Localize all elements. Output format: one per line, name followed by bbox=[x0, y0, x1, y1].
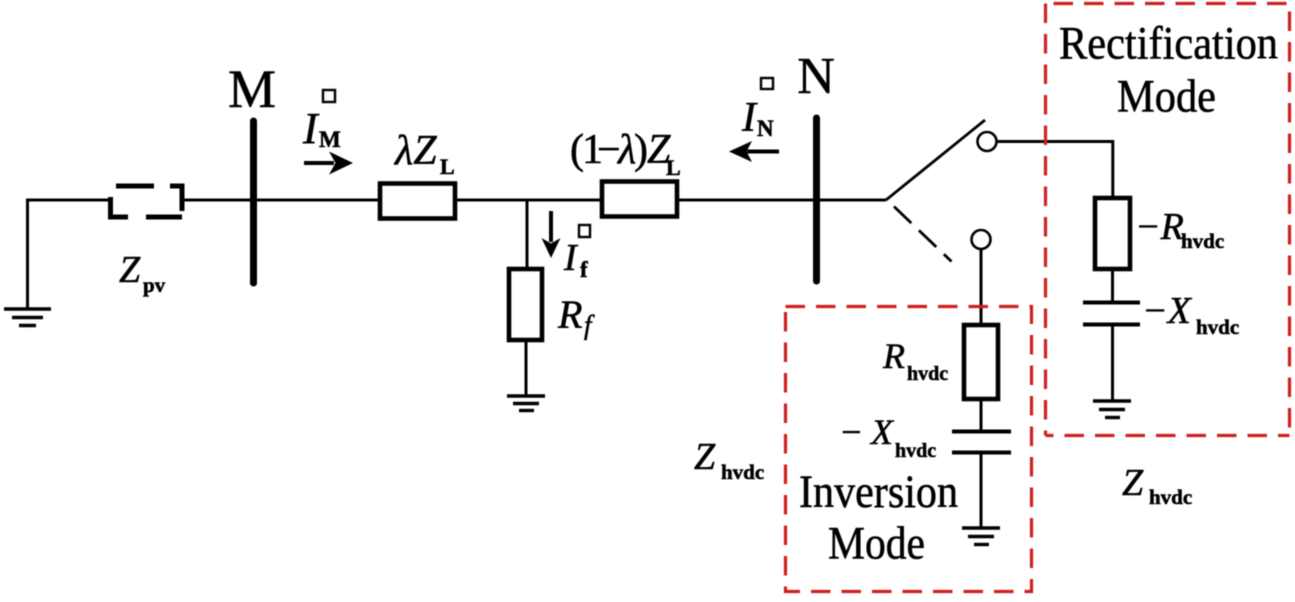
label lambda-Z_L bbox=[393, 128, 455, 179]
svg-text:Z: Z bbox=[1122, 462, 1144, 504]
resistor (1-lambda)Z_L bbox=[602, 182, 677, 217]
arrow I_N bbox=[729, 141, 779, 162]
impedance Z_pv dashed box bbox=[111, 186, 183, 217]
svg-text:Z: Z bbox=[694, 436, 716, 478]
label I_M bbox=[302, 104, 341, 153]
svg-text:λZ: λZ bbox=[393, 128, 437, 174]
svg-text:Mode: Mode bbox=[828, 518, 925, 570]
svg-text:I: I bbox=[741, 95, 758, 141]
ground (far left) bbox=[4, 309, 51, 326]
wire (lower contact down to R_hvdc) bbox=[980, 249, 983, 326]
label Z_hvdc (left of inversion box) bbox=[694, 436, 764, 484]
svg-text:Z: Z bbox=[119, 249, 141, 291]
svg-text:M: M bbox=[228, 59, 276, 119]
phasor dot square (I_f) bbox=[579, 225, 590, 237]
wire (capacitor to ground, inversion) bbox=[980, 452, 983, 528]
svg-text:−R: −R bbox=[1135, 206, 1184, 248]
switch blade (dashed, inversion position) bbox=[894, 207, 952, 262]
svg-text:N: N bbox=[797, 48, 835, 105]
bus N bbox=[813, 118, 820, 281]
wire (junction down to R_f) bbox=[526, 199, 529, 269]
label Z_hvdc (below rectification box) bbox=[1122, 462, 1192, 509]
svg-text:hvdc: hvdc bbox=[907, 363, 948, 385]
wire (upper contact to rectification branch) bbox=[997, 140, 1114, 143]
label -R_hvdc bbox=[1135, 206, 1224, 253]
switch blade (solid, rectification position) bbox=[886, 120, 985, 200]
svg-text:I: I bbox=[302, 104, 320, 153]
svg-text:M: M bbox=[319, 127, 341, 152]
capacitor -X_hvdc (inversion) bbox=[952, 432, 1011, 453]
resistor lambda-Z_L bbox=[380, 184, 455, 219]
resistor R_hvdc (inversion) bbox=[964, 325, 998, 399]
inversion mode box (red dashed) bbox=[786, 307, 1032, 592]
wire (R_hvdc to capacitor, inversion) bbox=[980, 399, 983, 431]
label -X_hvdc (rectification) bbox=[1142, 290, 1239, 339]
svg-text:−X: −X bbox=[1142, 290, 1193, 332]
wire ((1-lambda)Z_L to switch pivot, through bus N) bbox=[677, 199, 886, 202]
bus M bbox=[250, 121, 257, 283]
capacitor -X_hvdc (rectification) bbox=[1083, 303, 1140, 325]
wire (left vertical to ground) bbox=[26, 200, 29, 309]
wire (down to -R_hvdc) bbox=[1111, 140, 1114, 198]
arrow I_M bbox=[304, 152, 353, 175]
phasor dot square (I_N) bbox=[761, 78, 773, 89]
svg-text:R: R bbox=[882, 336, 905, 376]
svg-text:R: R bbox=[557, 292, 582, 337]
svg-text:hvdc: hvdc bbox=[895, 440, 936, 462]
label I_N bbox=[741, 95, 774, 141]
svg-text:hvdc: hvdc bbox=[1196, 315, 1239, 339]
svg-text:(1−λ)Z: (1−λ)Z bbox=[570, 127, 671, 173]
svg-text:f: f bbox=[580, 257, 588, 282]
svg-text:hvdc: hvdc bbox=[1149, 485, 1192, 509]
svg-text:L: L bbox=[440, 154, 455, 179]
phasor dot square (I_M) bbox=[323, 90, 335, 102]
svg-text:−: − bbox=[839, 412, 863, 452]
wire (left horizontal to Z_pv) bbox=[26, 199, 110, 202]
label I_f bbox=[563, 237, 588, 282]
wire (-R_hvdc to -X_hvdc capacitor) bbox=[1111, 269, 1114, 302]
arrow I_f bbox=[542, 211, 561, 258]
wire (lambda-Z_L to (1-lambda)Z_L) bbox=[455, 199, 602, 202]
svg-text:pv: pv bbox=[143, 273, 166, 297]
rectification mode box (red dashed) bbox=[1046, 4, 1290, 436]
wire (capacitor to ground, rectification) bbox=[1111, 324, 1114, 401]
label Z_pv bbox=[119, 249, 166, 297]
label (1-lambda)Z_L bbox=[570, 127, 681, 180]
ground (below R_f) bbox=[507, 396, 545, 411]
svg-text:Inversion: Inversion bbox=[799, 466, 958, 518]
label R_hvdc (inversion) bbox=[882, 336, 948, 385]
label -X_hvdc (inversion) bbox=[839, 412, 936, 462]
switch contact circle (lower) bbox=[972, 230, 991, 249]
ground (inversion branch) bbox=[962, 528, 1000, 545]
svg-text:hvdc: hvdc bbox=[721, 460, 764, 484]
resistor R_f bbox=[509, 269, 542, 340]
svg-text:L: L bbox=[666, 155, 681, 180]
svg-text:Mode: Mode bbox=[1117, 71, 1216, 123]
wire (Z_pv to lambda-Z_L resistor, through bus M) bbox=[184, 199, 380, 202]
wire (R_f to ground) bbox=[525, 340, 528, 396]
svg-text:I: I bbox=[563, 237, 579, 279]
resistor -R_hvdc bbox=[1095, 198, 1130, 269]
svg-text:X: X bbox=[869, 412, 895, 452]
switch contact circle (upper) bbox=[978, 132, 997, 151]
svg-text:Rectification: Rectification bbox=[1059, 18, 1278, 70]
svg-text:N: N bbox=[757, 116, 774, 141]
ground (rectification branch) bbox=[1093, 401, 1131, 418]
label R_f bbox=[557, 292, 595, 340]
svg-text:hvdc: hvdc bbox=[1181, 229, 1224, 253]
